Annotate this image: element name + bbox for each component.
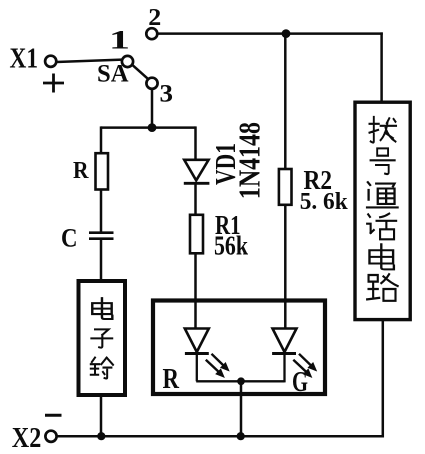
wire C to bell [100,239,103,279]
wire node A horizontal [101,126,196,129]
diode VD1 cathode bar [184,182,210,185]
svg-text:1: 1 [109,26,130,55]
dial box char bo [369,117,396,143]
dial box char hao [371,148,395,174]
resistor R2 body [279,169,292,205]
bell char zi [91,329,112,347]
LED indicator box [153,301,325,395]
wire dial box to bottom rail [380,318,383,436]
svg-text:R: R [163,364,180,395]
LED green emission arrows [293,354,315,377]
polarity plus sign [43,74,64,93]
dial box char dian [369,244,393,269]
wire pin2 top rail [157,32,382,35]
svg-text:5. 6k: 5. 6k [300,189,349,215]
switch arm SA [132,65,148,80]
bell char ling [91,358,113,379]
wire R2 to green LED [284,205,287,328]
resistor R body [96,153,109,189]
polarity minus sign [45,414,62,417]
svg-text:X2: X2 [12,422,42,454]
wire green LED cathode down [283,354,285,383]
svg-text:1N4148: 1N4148 [232,122,267,199]
svg-text:2: 2 [148,5,161,31]
wire top rail down to dial box [380,32,383,102]
wire X1 to switch pole [56,60,122,62]
wire VD1 to R1 [194,183,197,215]
junction dot bell bottom [97,432,105,440]
terminal circle X1 [45,56,56,67]
svg-text:SA: SA [97,61,129,88]
wire bottom rail [57,435,384,438]
svg-text:C: C [61,224,78,253]
dial box char hua [367,214,396,240]
svg-text:3: 3 [160,81,174,108]
wire LED common horizontal [196,380,284,382]
svg-text:56k: 56k [214,230,248,260]
junction dot bottom rail LED [237,432,245,440]
electronic bell box [79,281,126,395]
wire bell to bottom rail [100,395,103,436]
svg-text:R: R [73,158,89,184]
diode VD1 triangle [184,160,208,181]
dial and talk circuit box [355,102,410,319]
switch SA pole circle pin 1 [122,56,133,67]
wire junction to R2 [284,34,287,170]
resistor R1 body [190,215,203,254]
wire R to C [100,190,103,232]
LED red triangle [185,329,209,353]
wire node A down to VD1 [194,126,197,160]
junction dot node A [148,123,157,132]
wire LED common to bottom rail [240,381,243,436]
LED green triangle [273,329,297,353]
wire pin3 down to node [151,89,154,129]
svg-text:G: G [292,367,308,398]
terminal circle X2 [45,431,56,442]
LED red emission arrows [206,354,228,377]
bell char dian [92,298,112,319]
LED red cathode bar [185,352,209,355]
dial box char lu [367,274,398,301]
switch contact circle pin 2 [146,28,157,39]
svg-text:X1: X1 [10,43,39,75]
LED green cathode bar [272,352,296,355]
capacitor C plates [89,233,114,239]
junction dot top rail to R2 [282,29,291,38]
wire R1 to red LED [194,253,197,328]
wire red LED cathode down [196,354,198,382]
switch contact circle pin 3 [146,78,157,89]
wire node A down to R [100,126,103,153]
dial box char tong [367,182,398,207]
junction dot LED common [237,377,245,385]
